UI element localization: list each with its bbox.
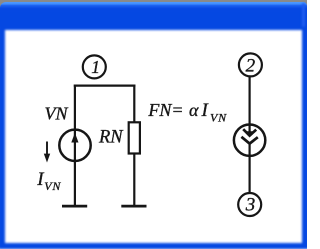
ground bar right bbox=[121, 205, 146, 208]
wire right vertical lower bbox=[133, 154, 135, 207]
svg-text:VN: VN bbox=[210, 111, 227, 125]
wire top horizontal bbox=[74, 84, 136, 86]
node 3 bbox=[238, 193, 261, 216]
wire node2 to dep source bbox=[249, 76, 251, 124]
wire dep source to node 3 bbox=[249, 143, 251, 192]
svg-text:2: 2 bbox=[246, 56, 256, 77]
node 1 bbox=[83, 55, 106, 78]
wire right vertical upper bbox=[133, 85, 135, 123]
svg-text:RN: RN bbox=[98, 128, 124, 148]
resistor RN bbox=[129, 122, 140, 153]
wire left vertical bbox=[74, 85, 76, 207]
dependent current source FN bbox=[234, 125, 265, 156]
dependent source arrow shaft bbox=[249, 125, 251, 132]
svg-text:1: 1 bbox=[91, 57, 100, 77]
ground bar left bbox=[62, 205, 87, 208]
svg-text:FN=: FN= bbox=[147, 100, 183, 120]
svg-text:3: 3 bbox=[245, 195, 256, 216]
arrowhead up inside source bbox=[71, 133, 78, 143]
svg-text:VN: VN bbox=[44, 179, 61, 193]
node 2 bbox=[239, 53, 262, 76]
current arrow IVN bbox=[46, 142, 48, 159]
current source VN (independent) bbox=[59, 130, 90, 161]
dependent source chevron 2 bbox=[241, 137, 257, 144]
svg-text:I: I bbox=[201, 100, 210, 121]
svg-text:VN: VN bbox=[45, 104, 69, 124]
dependent source chevron 1 bbox=[243, 129, 256, 135]
svg-text:α: α bbox=[189, 100, 199, 120]
